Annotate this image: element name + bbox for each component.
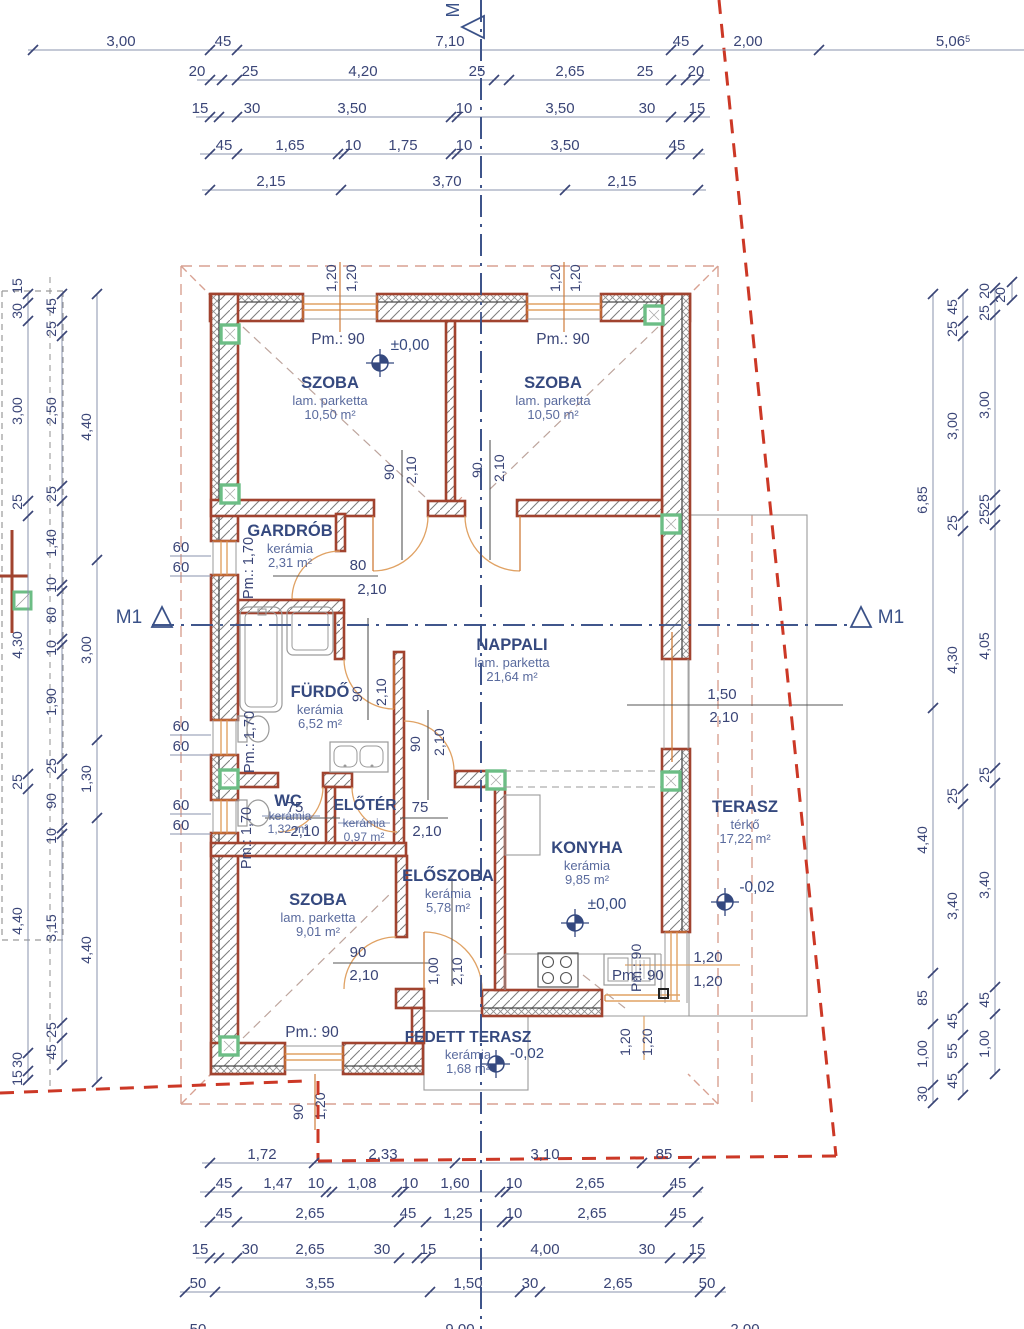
wall furdo top <box>238 600 344 613</box>
red property boundary vertical <box>317 1081 320 1161</box>
svg-text:6,85: 6,85 <box>915 486 931 514</box>
svg-text:1,32 m²: 1,32 m² <box>268 822 309 836</box>
red property boundary bottom <box>318 1156 836 1161</box>
svg-text:1,72: 1,72 <box>247 1146 276 1163</box>
dimension chain right 3 <box>977 283 1000 1079</box>
svg-text:90: 90 <box>44 793 60 809</box>
svg-text:50: 50 <box>699 1275 716 1292</box>
svg-text:30: 30 <box>374 1241 391 1258</box>
svg-text:15: 15 <box>10 1070 26 1086</box>
wall corner piece eloszoba-terasz <box>396 989 424 1008</box>
svg-text:30: 30 <box>10 303 26 319</box>
svg-text:1,00: 1,00 <box>977 1030 993 1058</box>
window szoba1 axis <box>339 262 341 332</box>
svg-text:2,10: 2,10 <box>357 581 386 598</box>
dim 75/2,10 eloter <box>400 799 448 840</box>
svg-text:1,30: 1,30 <box>79 765 95 793</box>
svg-text:1,50: 1,50 <box>707 686 736 703</box>
svg-text:25: 25 <box>977 305 993 321</box>
dimension chain top row 5 <box>202 173 706 195</box>
svg-text:2,65: 2,65 <box>295 1241 324 1258</box>
svg-text:90: 90 <box>382 464 398 480</box>
svg-text:GARDRÓB: GARDRÓB <box>247 521 332 540</box>
centerline M1 overlay <box>152 624 851 626</box>
svg-text:3,70: 3,70 <box>432 173 461 190</box>
dim 1,20/1,20 konyha right <box>625 949 740 990</box>
wall outer left segment 4 <box>211 833 238 1074</box>
svg-text:25: 25 <box>44 321 60 337</box>
dimension chain bottom row 3 <box>200 1205 703 1227</box>
wall konyha left <box>495 789 505 990</box>
wall outer top left segment <box>210 294 303 321</box>
svg-text:3,50: 3,50 <box>550 137 579 154</box>
roof dashed line over terrace x=752 <box>751 515 753 1104</box>
svg-text:3,40: 3,40 <box>945 892 961 920</box>
svg-text:9,00: 9,00 <box>445 1321 474 1329</box>
svg-text:4,40: 4,40 <box>79 936 95 964</box>
svg-text:20: 20 <box>688 63 705 80</box>
svg-text:Pm.: 1,70: Pm.: 1,70 <box>241 537 257 599</box>
window szoba3 axis <box>314 1074 316 1130</box>
room label wc <box>274 792 302 810</box>
dimension chain bottom row 5 <box>180 1275 726 1297</box>
svg-text:2,15: 2,15 <box>256 173 285 190</box>
svg-text:60: 60 <box>173 797 190 814</box>
column marker left top <box>221 325 239 343</box>
kitchen dashed upper cabinets <box>504 771 661 787</box>
svg-text:1,20: 1,20 <box>693 949 722 966</box>
dimension chain top row 3 <box>192 100 710 122</box>
section marker M top <box>443 3 484 39</box>
label pm90 konyha <box>612 967 664 984</box>
svg-text:1,40: 1,40 <box>44 529 60 557</box>
wall szoba3 right <box>396 856 407 937</box>
survey marker szoba1 <box>366 349 394 377</box>
svg-text:45: 45 <box>215 33 232 50</box>
svg-text:2,10: 2,10 <box>349 967 378 984</box>
wall outer left segment 3 <box>211 755 238 800</box>
kitchen sink <box>604 954 655 985</box>
dim 60/60 furdo window <box>170 718 211 755</box>
svg-text:9,85 m²: 9,85 m² <box>565 872 610 887</box>
room label szoba2 <box>515 374 591 422</box>
svg-text:45: 45 <box>945 1013 961 1029</box>
svg-text:M1: M1 <box>878 607 904 628</box>
svg-text:1,20: 1,20 <box>640 1028 656 1056</box>
wall pier nappali-eloszoba <box>455 771 487 787</box>
svg-text:10: 10 <box>345 137 362 154</box>
svg-text:SZOBA: SZOBA <box>524 374 582 392</box>
svg-text:1,08: 1,08 <box>347 1175 376 1192</box>
svg-text:Pm.: 90: Pm.: 90 <box>628 944 644 992</box>
roof diagonal left szoba <box>243 327 425 497</box>
svg-text:25: 25 <box>945 321 961 337</box>
wall party between szoba1-szoba2 <box>446 321 455 501</box>
svg-text:45: 45 <box>669 137 686 154</box>
svg-text:15: 15 <box>689 1241 706 1258</box>
label pm90 szoba3 <box>285 1024 339 1041</box>
svg-text:10: 10 <box>44 640 60 656</box>
wall outer left segment 1 <box>211 294 238 541</box>
svg-text:Pm.: 1,70: Pm.: 1,70 <box>242 711 258 773</box>
room label szoba1 <box>292 374 368 422</box>
section marker M1 left <box>116 607 172 628</box>
dim 1,50/2,10 terasz door <box>627 686 843 726</box>
svg-text:4,30: 4,30 <box>10 631 26 659</box>
svg-text:90: 90 <box>408 736 424 752</box>
svg-text:1,60: 1,60 <box>440 1175 469 1192</box>
svg-text:2,10: 2,10 <box>492 454 508 482</box>
svg-text:1,20: 1,20 <box>693 973 722 990</box>
label pm90 konyha rotated <box>628 944 644 992</box>
dimension chain bottom row 4 <box>192 1241 706 1263</box>
svg-text:3,10: 3,10 <box>530 1146 559 1163</box>
label +-0,00 konyha <box>588 896 627 913</box>
dimension chain bottom row 2 <box>200 1175 703 1197</box>
terasz outline <box>689 515 807 1016</box>
dim 60/60 gardrob window <box>170 539 211 576</box>
centerline M1 horizontal y=625 <box>152 624 851 626</box>
svg-text:FÜRDŐ: FÜRDŐ <box>291 682 350 701</box>
svg-text:60: 60 <box>173 539 190 556</box>
room label furdo <box>291 682 350 731</box>
svg-text:25: 25 <box>469 63 486 80</box>
door terasz eloszoba arc <box>424 932 482 990</box>
window szoba3 size labels <box>291 1092 329 1120</box>
svg-text:1,90: 1,90 <box>44 688 60 716</box>
dimension chain top row 4 <box>200 137 705 159</box>
door szoba3 arc <box>344 937 396 989</box>
svg-text:17,22 m²: 17,22 m² <box>719 831 771 846</box>
svg-text:Pm.: 90: Pm.: 90 <box>536 331 590 348</box>
wall outer left segment 2 <box>211 575 238 720</box>
svg-text:WC: WC <box>274 792 302 810</box>
dimension chain left 2 <box>44 289 67 1070</box>
svg-text:45: 45 <box>670 1175 687 1192</box>
svg-text:2,00: 2,00 <box>733 33 762 50</box>
svg-text:10: 10 <box>308 1175 325 1192</box>
svg-text:2,10: 2,10 <box>412 823 441 840</box>
svg-text:85: 85 <box>915 990 931 1006</box>
svg-text:25: 25 <box>44 758 60 774</box>
svg-text:10,50 m²: 10,50 m² <box>304 407 356 422</box>
svg-text:Pm.: 90: Pm.: 90 <box>311 331 365 348</box>
room label gardrob <box>247 521 332 570</box>
svg-text:7,10: 7,10 <box>435 33 464 50</box>
svg-text:kerámia: kerámia <box>425 886 472 901</box>
fedett terasz outline <box>424 1011 528 1090</box>
svg-text:M1: M1 <box>116 607 142 628</box>
svg-text:45: 45 <box>977 992 993 1008</box>
dimension chain left 3 <box>79 289 102 1087</box>
svg-text:2,10: 2,10 <box>374 678 390 706</box>
svg-text:25: 25 <box>10 774 26 790</box>
svg-text:60: 60 <box>173 559 190 576</box>
svg-text:3,00: 3,00 <box>945 412 961 440</box>
label pm90 szoba2 <box>536 331 590 348</box>
svg-text:lam. parketta: lam. parketta <box>474 655 550 670</box>
svg-text:Pm.: 90: Pm.: 90 <box>285 1024 339 1041</box>
svg-text:21,64 m²: 21,64 m² <box>486 669 538 684</box>
toilet furdo <box>238 716 269 742</box>
column marker top right <box>645 306 663 324</box>
fridge <box>505 795 540 855</box>
svg-text:75: 75 <box>412 799 429 816</box>
svg-text:lam. parketta: lam. parketta <box>515 393 591 408</box>
svg-text:2,65: 2,65 <box>603 1275 632 1292</box>
roof diagonal right szoba <box>487 327 658 492</box>
svg-text:3,50: 3,50 <box>337 100 366 117</box>
roof valley marks center <box>444 497 465 516</box>
column marker right mid <box>662 515 680 533</box>
wall szoba2 bottom <box>517 500 662 516</box>
svg-text:3,00: 3,00 <box>106 33 135 50</box>
svg-text:45: 45 <box>216 1205 233 1222</box>
svg-text:15: 15 <box>10 278 26 294</box>
label -0,02 fedett <box>510 1045 544 1062</box>
svg-text:10: 10 <box>44 828 60 844</box>
door furdo arc <box>344 659 394 709</box>
svg-text:3,15: 3,15 <box>44 914 60 942</box>
svg-text:50: 50 <box>190 1321 207 1329</box>
dim 80/2,10 gardrob <box>273 557 387 598</box>
window konyha corner horizontal <box>605 995 680 1001</box>
svg-text:2,33: 2,33 <box>368 1146 397 1163</box>
svg-text:2,65: 2,65 <box>577 1205 606 1222</box>
svg-text:1,00: 1,00 <box>426 957 442 985</box>
svg-text:2,65: 2,65 <box>295 1205 324 1222</box>
door eloszoba labels <box>408 710 448 800</box>
column marker center <box>487 771 505 789</box>
svg-text:30: 30 <box>244 100 261 117</box>
svg-text:15: 15 <box>192 1241 209 1258</box>
svg-text:45: 45 <box>945 1073 961 1089</box>
stove <box>538 953 578 987</box>
svg-text:90: 90 <box>350 944 367 961</box>
svg-text:1,65: 1,65 <box>275 137 304 154</box>
wall wc-eloter <box>326 787 335 843</box>
survey marker konyha <box>561 909 589 937</box>
svg-text:térkő: térkő <box>731 817 760 832</box>
washbasin double <box>330 742 388 772</box>
wall konyha bottom <box>482 990 602 1016</box>
label pm90 szoba1 <box>311 331 365 348</box>
svg-text:25: 25 <box>945 788 961 804</box>
svg-text:90: 90 <box>291 1104 307 1120</box>
dim 75/2,10 wc <box>265 799 340 840</box>
svg-text:55: 55 <box>945 1043 961 1059</box>
neighbour column marker <box>14 592 31 609</box>
svg-text:15: 15 <box>689 100 706 117</box>
svg-text:25: 25 <box>637 63 654 80</box>
neighbour outline dashed <box>2 291 63 940</box>
svg-text:10: 10 <box>506 1175 523 1192</box>
svg-text:80: 80 <box>44 607 60 623</box>
svg-text:3,00: 3,00 <box>79 636 95 664</box>
label pm170 wc <box>239 807 255 869</box>
svg-text:30: 30 <box>639 100 656 117</box>
toilet wc <box>238 800 269 826</box>
svg-text:25: 25 <box>44 1022 60 1038</box>
svg-text:±0,00: ±0,00 <box>391 337 430 354</box>
svg-text:1,47: 1,47 <box>263 1175 292 1192</box>
column marker left wc <box>220 770 238 788</box>
wall wc top segment 1 <box>238 773 278 787</box>
wall szoba1 bottom <box>211 500 374 516</box>
room label terasz <box>712 798 778 846</box>
svg-text:NAPPALI: NAPPALI <box>476 636 547 654</box>
svg-text:lam. parketta: lam. parketta <box>292 393 368 408</box>
window szoba2 axis <box>563 262 565 332</box>
svg-text:4,05: 4,05 <box>977 632 993 660</box>
svg-text:3,40: 3,40 <box>977 871 993 899</box>
door szoba1 arc <box>373 516 428 571</box>
room label szoba3 <box>280 891 356 939</box>
svg-text:2,31 m²: 2,31 m² <box>268 555 313 570</box>
shower tray <box>287 607 333 655</box>
room label konyha <box>551 839 623 887</box>
red property boundary right <box>719 0 836 1156</box>
svg-text:4,40: 4,40 <box>10 907 26 935</box>
door eloter arc <box>352 787 397 832</box>
svg-text:1,75: 1,75 <box>388 137 417 154</box>
bathtub <box>240 607 282 712</box>
svg-text:20: 20 <box>993 287 1009 303</box>
dimension chain bottom row 1 <box>202 1146 700 1168</box>
room label eloter <box>334 796 397 814</box>
setback dashed line x=50 <box>49 277 51 1092</box>
svg-text:4,40: 4,40 <box>915 826 931 854</box>
svg-text:SZOBA: SZOBA <box>289 891 347 909</box>
roof diagonal szoba3 <box>243 892 392 1038</box>
door gardrob arc <box>292 551 340 599</box>
kitchen counter <box>505 954 661 998</box>
dim 1,20/1,20 konyha bottom labels <box>618 1016 656 1060</box>
svg-text:30: 30 <box>242 1241 259 1258</box>
svg-text:Pm.: 1,70: Pm.: 1,70 <box>239 807 255 869</box>
window wc <box>213 800 236 833</box>
svg-text:25: 25 <box>977 509 993 525</box>
svg-text:10,50 m²: 10,50 m² <box>527 407 579 422</box>
wall outer right segment 2 <box>662 749 690 932</box>
svg-text:45: 45 <box>44 1044 60 1060</box>
svg-text:3,55: 3,55 <box>305 1275 334 1292</box>
svg-text:90: 90 <box>470 462 486 478</box>
svg-text:1,20: 1,20 <box>324 264 340 292</box>
wall door pier center <box>428 501 465 516</box>
door eloszoba arc <box>404 721 454 771</box>
svg-text:60: 60 <box>173 718 190 735</box>
window szoba2 size labels <box>548 264 584 292</box>
svg-text:45: 45 <box>400 1205 417 1222</box>
eloter struck sublabels <box>338 816 390 844</box>
column marker left mid <box>221 485 239 503</box>
svg-text:10: 10 <box>402 1175 419 1192</box>
svg-text:90: 90 <box>350 686 366 702</box>
svg-text:30: 30 <box>915 1086 931 1102</box>
window szoba3 bottom <box>285 1046 343 1070</box>
svg-text:5,78 m²: 5,78 m² <box>426 900 471 915</box>
svg-text:1,00: 1,00 <box>915 1040 931 1068</box>
svg-text:30: 30 <box>639 1241 656 1258</box>
window furdo <box>213 720 236 755</box>
dimension chain top row 2 <box>189 63 710 85</box>
room label eloszoba <box>402 866 494 915</box>
svg-text:ELŐTÉR: ELŐTÉR <box>334 796 397 814</box>
svg-text:KONYHA: KONYHA <box>551 839 623 857</box>
window gardrob <box>213 541 236 575</box>
svg-text:2,10: 2,10 <box>432 728 448 756</box>
svg-text:3,50: 3,50 <box>545 100 574 117</box>
svg-text:25: 25 <box>945 515 961 531</box>
roof diagonal nappali <box>583 975 625 1008</box>
svg-text:kerámia: kerámia <box>445 1047 492 1062</box>
wall outer top right segment <box>601 294 690 321</box>
svg-text:1,68 m²: 1,68 m² <box>446 1061 491 1076</box>
label +-0,00 szoba1 <box>391 337 430 354</box>
dimension chain right 1 <box>915 289 938 1108</box>
label pm170 gardrob <box>241 537 257 599</box>
window szoba2 top <box>527 296 601 319</box>
centerline vertical overlay <box>480 0 482 1329</box>
neighbour wall fragment <box>0 530 28 633</box>
svg-text:5,065: 5,065 <box>936 33 970 50</box>
svg-text:60: 60 <box>173 738 190 755</box>
svg-text:-0,02: -0,02 <box>510 1045 544 1062</box>
svg-text:45: 45 <box>44 298 60 314</box>
section marker M1 right <box>851 607 904 628</box>
svg-text:25: 25 <box>242 63 259 80</box>
column marker left bottom <box>220 1037 238 1055</box>
window konyha right <box>665 932 687 1003</box>
svg-text:45: 45 <box>216 137 233 154</box>
svg-text:4,30: 4,30 <box>945 646 961 674</box>
svg-text:4,20: 4,20 <box>348 63 377 80</box>
room label fedett terasz <box>405 1029 532 1076</box>
wall furdo right <box>335 613 344 659</box>
svg-text:15: 15 <box>192 100 209 117</box>
terasz bottom edge <box>601 1015 689 1017</box>
door terasz sliding <box>664 632 688 762</box>
svg-text:9,01 m²: 9,01 m² <box>296 924 341 939</box>
door wc arc <box>278 787 323 832</box>
svg-text:2,50: 2,50 <box>44 397 60 425</box>
wall outer bottom segment 2 <box>343 1043 423 1074</box>
svg-text:10: 10 <box>44 577 60 593</box>
svg-text:2,65: 2,65 <box>575 1175 604 1192</box>
svg-text:25: 25 <box>977 767 993 783</box>
label -0,02 terasz <box>739 879 774 896</box>
svg-text:3,00: 3,00 <box>977 391 993 419</box>
svg-text:M: M <box>443 3 463 18</box>
room label nappali <box>474 636 550 684</box>
svg-text:20: 20 <box>977 283 993 299</box>
wall gardrob right <box>336 514 345 551</box>
svg-text:1,20: 1,20 <box>548 264 564 292</box>
svg-text:2,65: 2,65 <box>555 63 584 80</box>
svg-text:85: 85 <box>656 1146 673 1163</box>
roof overhang outline <box>181 266 718 1104</box>
svg-text:30: 30 <box>10 1052 26 1068</box>
dim 60/60 wc window <box>170 797 211 834</box>
window szoba1 top <box>303 296 377 319</box>
svg-text:kerámia: kerámia <box>297 702 344 717</box>
svg-text:1,20: 1,20 <box>313 1092 329 1120</box>
red property boundary left <box>0 1081 305 1093</box>
wall outer top middle segment <box>377 294 527 321</box>
floor drain square <box>659 989 668 998</box>
svg-text:30: 30 <box>522 1275 539 1292</box>
